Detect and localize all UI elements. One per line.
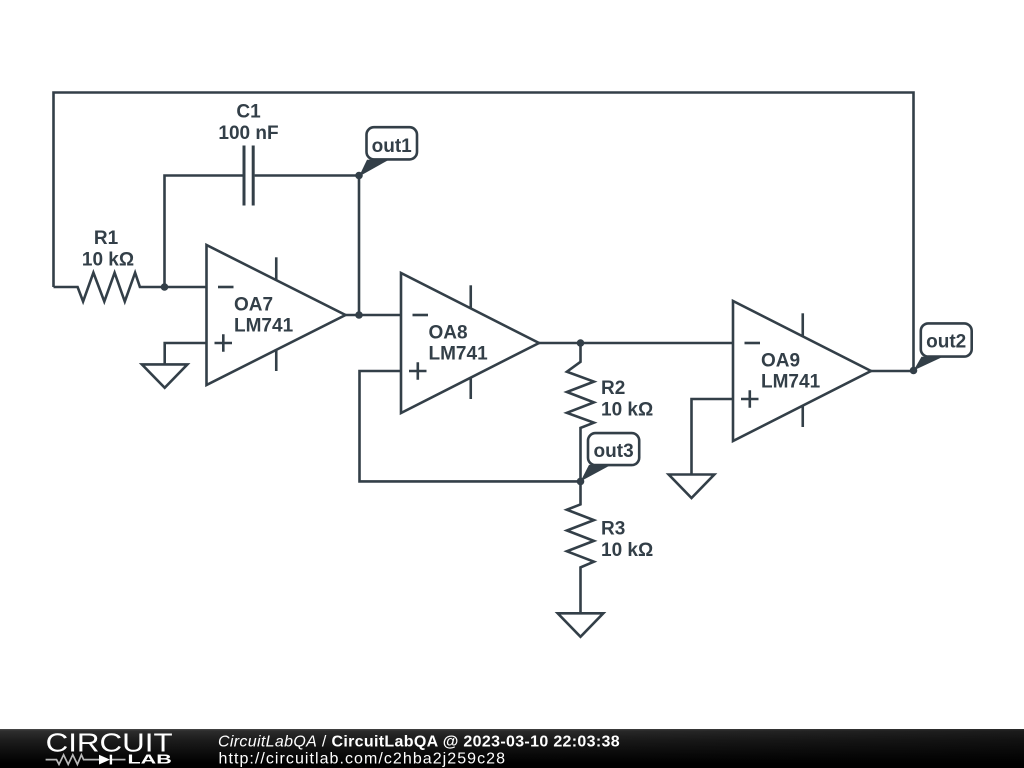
svg-text:out3: out3	[594, 441, 634, 462]
svg-text:10 kΩ: 10 kΩ	[82, 250, 134, 271]
svg-text:OA7: OA7	[234, 295, 273, 316]
svg-text:R3: R3	[601, 519, 625, 540]
svg-text:LM741: LM741	[429, 344, 489, 365]
svg-text:R1: R1	[94, 228, 119, 249]
svg-text:100 nF: 100 nF	[218, 123, 278, 144]
svg-text:10 kΩ: 10 kΩ	[601, 400, 653, 421]
svg-text:CircuitLabQA / CircuitLabQA @: CircuitLabQA / CircuitLabQA @ 2023-03-10…	[218, 733, 620, 750]
svg-text:10 kΩ: 10 kΩ	[601, 540, 653, 561]
svg-text:OA9: OA9	[761, 351, 800, 372]
svg-text:out2: out2	[926, 331, 966, 352]
svg-text:LAB: LAB	[128, 751, 172, 766]
svg-text:out1: out1	[372, 136, 413, 157]
svg-text:R2: R2	[601, 378, 625, 399]
svg-text:LM741: LM741	[234, 316, 294, 337]
svg-text:http://circuitlab.com/c2hba2j2: http://circuitlab.com/c2hba2j259c28	[219, 751, 507, 768]
svg-text:LM741: LM741	[761, 372, 821, 393]
svg-text:C1: C1	[236, 102, 261, 123]
svg-text:OA8: OA8	[429, 323, 468, 344]
